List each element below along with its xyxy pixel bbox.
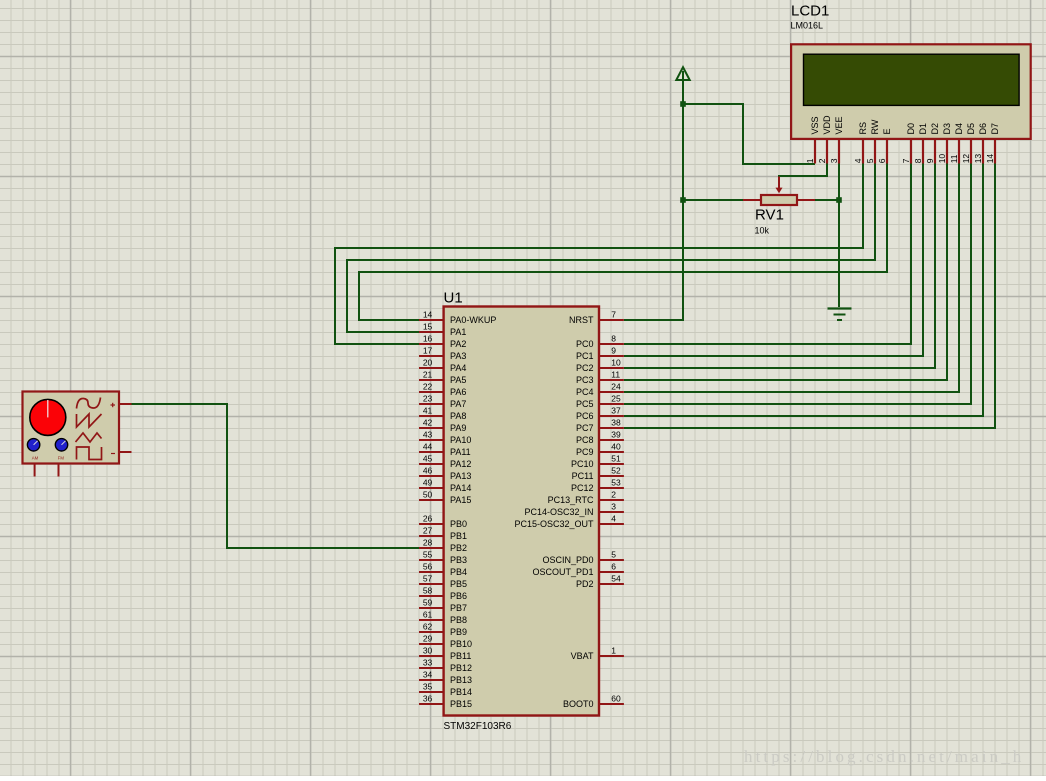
svg-text:D2: D2 <box>930 123 940 135</box>
svg-text:PB0: PB0 <box>450 519 467 529</box>
svg-text:55: 55 <box>423 550 433 560</box>
U1 pin 16 PA2 <box>419 334 466 350</box>
U1 pin 52 PC11 <box>572 466 624 482</box>
svg-text:NRST: NRST <box>569 315 594 325</box>
svg-text:D0: D0 <box>906 123 916 135</box>
wire LCD D0 to U1 PC0 <box>624 163 911 344</box>
svg-text:60: 60 <box>611 694 621 704</box>
svg-text:6: 6 <box>611 562 616 572</box>
U1 pin 22 PA6 <box>419 382 466 398</box>
svg-text:D3: D3 <box>942 123 952 135</box>
svg-text:PA12: PA12 <box>450 459 471 469</box>
LCD LCD1 body <box>791 44 1031 139</box>
svg-text:VEE: VEE <box>834 116 844 134</box>
svg-text:11: 11 <box>949 154 959 163</box>
U1 pin 44 PA11 <box>419 442 471 458</box>
svg-text:PC6: PC6 <box>576 411 594 421</box>
svg-text:PB14: PB14 <box>450 687 472 697</box>
svg-text:D4: D4 <box>954 123 964 135</box>
signal generator body <box>23 392 120 464</box>
LCD1 pin 9 D2 <box>925 123 940 164</box>
junction VEE/RV1 right <box>836 197 842 203</box>
svg-text:VBAT: VBAT <box>571 651 594 661</box>
U1 pin 10 PC2 <box>576 358 624 374</box>
U1 pin 4 PC15-OSC32_OUT <box>514 514 623 530</box>
svg-text:62: 62 <box>423 622 433 632</box>
U1 pin 56 PB4 <box>419 562 467 578</box>
svg-text:6: 6 <box>877 158 887 163</box>
svg-text:46: 46 <box>423 466 433 476</box>
LCD1 pin 3 VEE <box>829 116 844 163</box>
svg-text:PC11: PC11 <box>572 471 594 481</box>
svg-text:5: 5 <box>865 158 875 163</box>
svg-text:56: 56 <box>423 562 433 572</box>
svg-text:30: 30 <box>423 646 433 656</box>
U1 pin 14 PA0-WKUP <box>419 310 496 326</box>
U1 pin 61 PB8 <box>419 610 467 626</box>
svg-text:BOOT0: BOOT0 <box>563 699 594 709</box>
svg-text:13: 13 <box>973 154 983 164</box>
U1 pin 30 PB11 <box>419 646 471 662</box>
svg-text:PB3: PB3 <box>450 555 467 565</box>
LCD1 pin 13 D6 <box>973 123 988 164</box>
svg-text:D5: D5 <box>966 123 976 135</box>
U1 pin 57 PB5 <box>419 574 467 590</box>
U1 pin 38 PC7 <box>576 418 624 434</box>
wire LCD RW pin5 to U1 PA1 <box>347 163 875 332</box>
svg-text:57: 57 <box>423 574 433 584</box>
svg-text:2: 2 <box>817 158 827 163</box>
LCD1 pin 11 D4 <box>949 123 964 164</box>
svg-text:2: 2 <box>611 490 616 500</box>
U1 pin 20 PA4 <box>419 358 466 374</box>
U1 pin 3 PC14-OSC32_IN <box>524 502 623 518</box>
svg-text:9: 9 <box>611 346 616 356</box>
generator square glyph <box>77 447 102 460</box>
wire RV1 right to VEE line <box>815 199 839 201</box>
svg-text:AM: AM <box>32 455 39 460</box>
svg-text:PA3: PA3 <box>450 351 466 361</box>
LCD1 pin 12 D5 <box>961 123 976 164</box>
svg-text:37: 37 <box>611 406 621 416</box>
svg-text:20: 20 <box>423 358 433 368</box>
svg-text:16: 16 <box>423 334 433 344</box>
svg-text:58: 58 <box>423 586 433 596</box>
svg-text:61: 61 <box>423 610 433 620</box>
U1 pin 35 PB14 <box>419 682 472 698</box>
U1 pin 41 PA8 <box>419 406 466 422</box>
svg-text:PC12: PC12 <box>571 483 594 493</box>
U1 pin 21 PA5 <box>419 370 466 386</box>
svg-text:21: 21 <box>423 370 433 380</box>
svg-text:39: 39 <box>611 430 621 440</box>
svg-text:52: 52 <box>611 466 621 476</box>
LCD1 pin 7 D0 <box>901 123 916 164</box>
svg-text:38: 38 <box>611 418 621 428</box>
U1 pin 51 PC10 <box>571 454 624 470</box>
ground <box>828 309 852 321</box>
svg-text:VSS: VSS <box>810 116 820 134</box>
generator amplitude knob <box>30 399 66 435</box>
svg-text:PC8: PC8 <box>576 435 594 445</box>
svg-text:STM32F103R6: STM32F103R6 <box>444 721 512 732</box>
wire LCD D1 to U1 PC1 <box>624 163 923 356</box>
U1 pin 28 PB2 <box>419 538 467 554</box>
svg-text:FM: FM <box>58 455 65 460</box>
U1 pin 55 PB3 <box>419 550 467 566</box>
svg-text:36: 36 <box>423 694 433 704</box>
U1 pin 33 PB12 <box>419 658 472 674</box>
U1 pin 23 PA7 <box>419 394 466 410</box>
svg-text:PC5: PC5 <box>576 399 594 409</box>
svg-text:D6: D6 <box>978 123 988 135</box>
svg-text:OSCOUT_PD1: OSCOUT_PD1 <box>532 567 593 577</box>
generator sawtooth glyph <box>77 414 102 427</box>
svg-text:53: 53 <box>611 478 621 488</box>
svg-text:25: 25 <box>611 394 621 404</box>
U1 pin 40 PC9 <box>576 442 624 458</box>
svg-text:PA6: PA6 <box>450 387 466 397</box>
U1 pin 39 PC8 <box>576 430 624 446</box>
wire LCD D2 to U1 PC2 <box>624 163 935 368</box>
svg-text:https://blog.csdn.net/main_h: https://blog.csdn.net/main_h <box>744 747 1024 766</box>
svg-text:40: 40 <box>611 442 621 452</box>
svg-text:PC13_RTC: PC13_RTC <box>548 495 594 505</box>
U1 pin 1 VBAT <box>571 646 624 662</box>
generator - pin <box>111 452 132 454</box>
svg-text:50: 50 <box>423 490 433 500</box>
U1 pin 62 PB9 <box>419 622 467 638</box>
svg-text:PB13: PB13 <box>450 675 472 685</box>
svg-text:PA7: PA7 <box>450 399 466 409</box>
svg-text:45: 45 <box>423 454 433 464</box>
svg-text:PC14-OSC32_IN: PC14-OSC32_IN <box>524 507 593 517</box>
svg-text:RW: RW <box>870 119 880 134</box>
U1 pin 11 PC3 <box>576 370 624 386</box>
U1 pin 34 PB13 <box>419 670 472 686</box>
svg-text:PA11: PA11 <box>450 447 471 457</box>
svg-text:PB1: PB1 <box>450 531 467 541</box>
svg-text:PB5: PB5 <box>450 579 467 589</box>
U1 pin 49 PA14 <box>419 478 471 494</box>
junction power/RV1 left <box>680 197 686 203</box>
wire RV1 left to power line <box>683 199 743 201</box>
LCD1 screen <box>804 54 1020 105</box>
svg-text:54: 54 <box>611 574 621 584</box>
svg-text:PB11: PB11 <box>450 651 471 661</box>
svg-text:PB4: PB4 <box>450 567 467 577</box>
generator bottom pin AM <box>34 464 36 477</box>
svg-text:1: 1 <box>611 646 616 656</box>
svg-text:49: 49 <box>423 478 433 488</box>
svg-text:LM016L: LM016L <box>791 21 824 31</box>
wire LCD D6 to U1 PC6 <box>624 163 983 416</box>
junction power/VSS <box>680 101 686 107</box>
U1 pin 9 PC1 <box>576 346 624 362</box>
U1 pin 26 PB0 <box>419 514 467 530</box>
LCD1 pin 8 D1 <box>913 123 928 164</box>
svg-text:12: 12 <box>961 154 971 164</box>
svg-text:U1: U1 <box>444 290 463 307</box>
svg-text:PA10: PA10 <box>450 435 471 445</box>
svg-text:PA13: PA13 <box>450 471 471 481</box>
svg-text:22: 22 <box>423 382 433 392</box>
U1 pin 37 PC6 <box>576 406 624 422</box>
svg-text:PB12: PB12 <box>450 663 472 673</box>
generator + pin <box>111 403 132 407</box>
svg-text:59: 59 <box>423 598 433 608</box>
U1 pin 5 OSCIN_PD0 <box>542 550 623 566</box>
generator triangle glyph <box>76 433 102 442</box>
wire LCD RS pin4 to U1 PA2 <box>335 163 863 344</box>
LCD1 pin 5 RW <box>865 119 880 163</box>
U1 pin 29 PB10 <box>419 634 472 650</box>
U1 pin 24 PC4 <box>576 382 624 398</box>
svg-text:44: 44 <box>423 442 433 452</box>
U1 pin 36 PB15 <box>419 694 472 710</box>
U1 pin 7 NRST <box>569 310 624 326</box>
svg-text:PB2: PB2 <box>450 543 467 553</box>
RV1 wiper arrow <box>776 177 783 194</box>
svg-text:23: 23 <box>423 394 433 404</box>
wire LCD D4 to U1 PC4 <box>624 163 959 392</box>
power symbol +V <box>676 67 689 80</box>
wire LCD VDD pin2 to RV1 wiper <box>779 163 827 177</box>
LCD1 pin 14 D7 <box>985 123 1000 164</box>
U1 pin 46 PA13 <box>419 466 471 482</box>
svg-text:PB7: PB7 <box>450 603 467 613</box>
svg-text:PC2: PC2 <box>576 363 594 373</box>
svg-text:LCD1: LCD1 <box>791 3 829 20</box>
wire LCD D5 to U1 PC5 <box>624 163 971 404</box>
svg-text:27: 27 <box>423 526 433 536</box>
U1 pin 42 PA9 <box>419 418 466 434</box>
svg-text:PC7: PC7 <box>576 423 594 433</box>
wire LCD E pin6 to U1 PA0 <box>359 163 887 320</box>
svg-text:PA0-WKUP: PA0-WKUP <box>450 315 496 325</box>
U1 pin 25 PC5 <box>576 394 624 410</box>
svg-text:3: 3 <box>829 158 839 163</box>
svg-text:15: 15 <box>423 322 433 332</box>
svg-text:PA9: PA9 <box>450 423 466 433</box>
U1 pin 45 PA12 <box>419 454 471 470</box>
resistor RV1 10k potentiometer <box>743 195 815 205</box>
svg-text:24: 24 <box>611 382 621 392</box>
wire generator + to U1 PB2 <box>131 404 420 548</box>
svg-text:PA2: PA2 <box>450 339 466 349</box>
svg-text:51: 51 <box>611 454 621 464</box>
svg-text:10: 10 <box>937 154 947 164</box>
U1 pin 54 PD2 <box>576 574 624 590</box>
svg-text:43: 43 <box>423 430 433 440</box>
U1 pin 27 PB1 <box>419 526 467 542</box>
svg-text:33: 33 <box>423 658 433 668</box>
svg-text:PA14: PA14 <box>450 483 471 493</box>
svg-text:34: 34 <box>423 670 433 680</box>
svg-text:OSCIN_PD0: OSCIN_PD0 <box>542 555 593 565</box>
LCD1 pin 10 D3 <box>937 123 952 164</box>
U1 pin 50 PA15 <box>419 490 471 506</box>
U1 pin 58 PB6 <box>419 586 467 602</box>
generator FM knob <box>55 439 67 451</box>
svg-text:PB9: PB9 <box>450 627 467 637</box>
wire LCD D7 to U1 PC7 <box>624 163 995 428</box>
svg-text:17: 17 <box>423 346 433 356</box>
svg-text:PB8: PB8 <box>450 615 467 625</box>
svg-text:D7: D7 <box>990 123 1000 135</box>
svg-text:PC1: PC1 <box>576 351 594 361</box>
svg-text:RS: RS <box>858 122 868 135</box>
svg-text:1: 1 <box>805 158 815 163</box>
LCD1 pin 1 VSS <box>805 116 820 163</box>
U1 pin 59 PB7 <box>419 598 467 614</box>
svg-text:PC3: PC3 <box>576 375 594 385</box>
U1 pin 60 BOOT0 <box>563 694 624 710</box>
wire LCD D3 to U1 PC3 <box>624 163 947 380</box>
svg-text:42: 42 <box>423 418 433 428</box>
svg-text:4: 4 <box>853 158 863 163</box>
svg-text:PB6: PB6 <box>450 591 467 601</box>
U1 pin 17 PA3 <box>419 346 466 362</box>
svg-text:10k: 10k <box>755 226 770 236</box>
svg-text:7: 7 <box>611 310 616 320</box>
svg-text:41: 41 <box>423 406 433 416</box>
svg-text:PC10: PC10 <box>571 459 594 469</box>
U1 pin 6 OSCOUT_PD1 <box>532 562 623 578</box>
svg-text:PB10: PB10 <box>450 639 472 649</box>
svg-text:8: 8 <box>611 334 616 344</box>
wire LCD VSS pin1 to power line <box>683 104 815 164</box>
U1 pin 8 PC0 <box>576 334 624 350</box>
wire LCD VEE pin3 to ground <box>838 163 840 307</box>
svg-text:PC0: PC0 <box>576 339 594 349</box>
U1 pin 43 PA10 <box>419 430 471 446</box>
svg-text:VDD: VDD <box>822 115 832 135</box>
svg-text:26: 26 <box>423 514 433 524</box>
MCU U1 body <box>444 307 599 716</box>
wire NRST to power <box>624 71 683 320</box>
svg-text:10: 10 <box>611 358 621 368</box>
svg-text:PA5: PA5 <box>450 375 466 385</box>
svg-text:5: 5 <box>611 550 616 560</box>
generator AM knob <box>27 439 39 451</box>
svg-text:9: 9 <box>925 158 935 163</box>
svg-text:E: E <box>882 128 892 134</box>
U1 pin 2 PC13_RTC <box>548 490 624 506</box>
svg-text:35: 35 <box>423 682 433 692</box>
generator bottom pin FM <box>58 464 60 477</box>
LCD1 pin 4 RS <box>853 122 868 164</box>
svg-text:PA8: PA8 <box>450 411 466 421</box>
svg-text:PC15-OSC32_OUT: PC15-OSC32_OUT <box>514 519 594 529</box>
svg-text:29: 29 <box>423 634 433 644</box>
svg-text:28: 28 <box>423 538 433 548</box>
svg-text:7: 7 <box>901 158 911 163</box>
svg-text:14: 14 <box>423 310 433 320</box>
LCD1 pin 2 VDD <box>817 115 832 164</box>
svg-text:PA1: PA1 <box>450 327 466 337</box>
svg-text:PC9: PC9 <box>576 447 594 457</box>
svg-text:11: 11 <box>611 370 620 380</box>
svg-text:4: 4 <box>611 514 616 524</box>
svg-text:PA15: PA15 <box>450 495 471 505</box>
svg-text:8: 8 <box>913 158 923 163</box>
svg-text:PD2: PD2 <box>576 579 594 589</box>
svg-text:D1: D1 <box>918 123 928 135</box>
LCD1 pin 6 E <box>877 128 892 163</box>
generator sine glyph <box>77 398 101 409</box>
svg-text:RV1: RV1 <box>755 207 784 224</box>
svg-text:PB15: PB15 <box>450 699 472 709</box>
svg-text:3: 3 <box>611 502 616 512</box>
U1 pin 53 PC12 <box>571 478 624 494</box>
svg-text:PC4: PC4 <box>576 387 594 397</box>
svg-text:14: 14 <box>985 154 995 164</box>
U1 pin 15 PA1 <box>419 322 466 338</box>
svg-text:PA4: PA4 <box>450 363 466 373</box>
